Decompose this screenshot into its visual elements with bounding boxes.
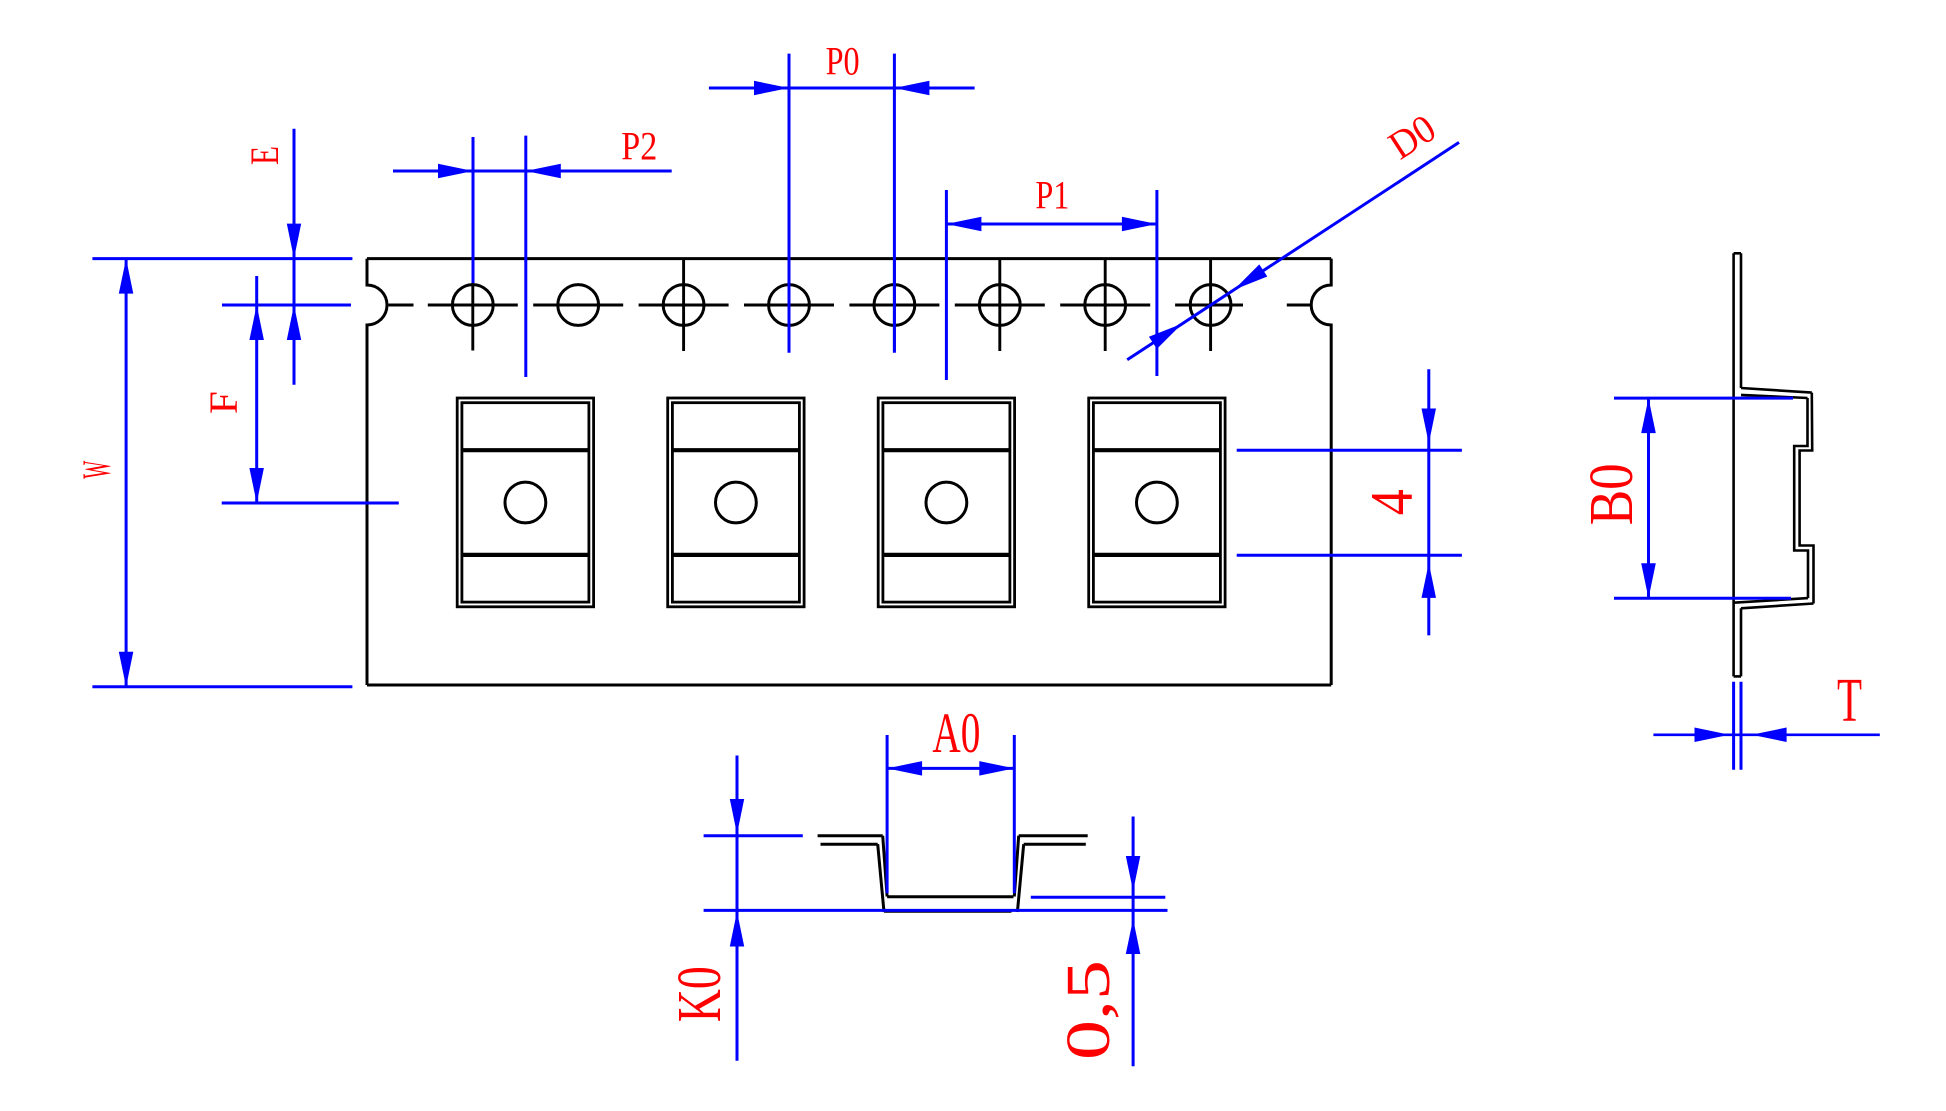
dimension T line with outside arrows [1653, 733, 1879, 736]
sprocket hole 8 [1190, 285, 1231, 326]
dimension 0,5 line with outside arrows [1132, 817, 1135, 1067]
svg-text:W: W [74, 461, 119, 479]
dimension B0 extension line lower [1614, 597, 1791, 600]
dimension B0 line with inside arrows [1647, 398, 1650, 598]
component pocket 3 (inner rim) [883, 403, 1010, 602]
section view pocket: right wall inner line [1014, 836, 1018, 897]
component pocket 3 (outer rim) [878, 398, 1014, 607]
dimension P0 line with outside arrows [709, 87, 975, 90]
svg-text:E: E [242, 146, 287, 165]
pocket 1 lower partition line [462, 553, 589, 557]
dimension P1 extension line at pocket 3 center [945, 190, 948, 380]
dimension 4 reference line upper (pocket partition) [1237, 449, 1462, 452]
dimension P2 extension line at sprocket hole 1 [472, 137, 475, 283]
dimension 4 line with outside arrows [1427, 369, 1430, 635]
pocket 3 upper partition line [883, 448, 1010, 452]
component pocket 1 (outer rim) [457, 398, 593, 607]
sprocket hole 7 [1085, 285, 1126, 326]
dimension W line with arrows [125, 259, 128, 687]
dimension P1 line with inside arrows [946, 223, 1157, 226]
leader D0 lower arrowhead [1149, 324, 1182, 349]
dimension K0 line with outside arrows [736, 756, 739, 1061]
tape side view: bottom end cap [1734, 675, 1741, 678]
pocket 2 upper partition line [672, 448, 799, 452]
svg-text:K0: K0 [666, 966, 734, 1022]
dimension K0 upper reference line [704, 834, 803, 837]
svg-text:F: F [201, 391, 246, 414]
pocket 1 upper partition line [462, 448, 589, 452]
dimension A0 line with inside arrows [887, 767, 1014, 770]
svg-text:4: 4 [1359, 489, 1425, 515]
section view pocket: left wall outer line [878, 844, 884, 912]
dimension B0 extension line upper [1614, 397, 1793, 400]
svg-text:P1: P1 [1035, 172, 1069, 217]
pocket 4 center hole [1137, 482, 1178, 523]
sprocket hole vertical crosshairs [682, 260, 685, 352]
svg-text:B0: B0 [1578, 463, 1646, 525]
pocket 4 lower partition line [1093, 553, 1220, 557]
section view pocket: left wall inner line [883, 836, 887, 897]
svg-text:P2: P2 [621, 124, 657, 169]
tape side view: top end cap [1734, 252, 1741, 255]
tape side view: front surface upper segment [1740, 253, 1743, 388]
pocket 2 center hole [716, 482, 757, 523]
component pocket 4 (outer rim) [1089, 398, 1225, 607]
side view pocket: top flange inner line [1741, 395, 1808, 398]
dimension E line with arrows [293, 129, 296, 385]
section view pocket: outer bottom line [884, 910, 1012, 913]
side view pocket: upper wall outer [1800, 393, 1814, 604]
side view pocket: top flange outer line [1741, 388, 1812, 393]
section view: tape bottom surface right segment [1024, 843, 1086, 846]
section view pocket: inner bottom line [887, 895, 1013, 898]
sprocket hole 1 [452, 285, 493, 326]
sprocket hole 6 [979, 285, 1020, 326]
svg-text:0,5: 0,5 [1055, 960, 1123, 1060]
component pocket 2 (outer rim) [668, 398, 804, 607]
section view pocket: right wall outer line [1017, 844, 1023, 912]
sprocket hole 3 [663, 285, 704, 326]
side view pocket: bottom flange outer line [1741, 604, 1814, 609]
dimension P0 extension line at sprocket hole 5 [893, 54, 896, 353]
sprocket hole 5 [874, 285, 915, 326]
section view: tape top surface right segment [1019, 834, 1088, 837]
leader D0 upper arrowhead [1234, 264, 1267, 289]
pocket 1 center hole [505, 482, 546, 523]
leader line D0 through sprocket hole 8 [1127, 142, 1459, 359]
section view: tape top surface left segment [818, 834, 883, 837]
sprocket hole 4 [769, 285, 810, 326]
svg-text:P0: P0 [826, 39, 860, 84]
svg-text:A0: A0 [932, 702, 980, 765]
dimension A0 extension line left [886, 735, 889, 893]
component pocket 4 (inner rim) [1093, 403, 1220, 602]
carrier tape outline (top view) with edge notches [367, 257, 1331, 260]
sprocket hole centerline (dash pattern) along tape [389, 304, 414, 307]
dimension 0,5 upper reference line (pocket inner bottom) [1031, 896, 1166, 899]
tape side view: back surface line [1732, 253, 1735, 676]
component pocket 1 (inner rim) [462, 403, 589, 602]
section view: tape bottom surface left segment [821, 843, 878, 846]
tape side view: front surface lower segment [1740, 608, 1743, 676]
pocket 3 center hole [926, 482, 967, 523]
dimension P2 line with outside arrows [393, 170, 672, 173]
component pocket 2 (inner rim) [672, 403, 799, 602]
dimension A0 extension line right [1013, 735, 1016, 893]
side view pocket: bottom flange inner line [1734, 598, 1808, 603]
dimension F line with arrows [255, 276, 258, 503]
pocket 2 lower partition line [672, 553, 799, 557]
dimension W extension lines (tape width) [92, 257, 352, 260]
pocket 4 upper partition line [1093, 448, 1220, 452]
dimension P0 extension line at sprocket hole 4 [788, 54, 791, 353]
svg-text:T: T [1837, 667, 1862, 735]
dimension P2 extension line at pocket 1 center [524, 136, 527, 377]
dimension E reference line at sprocket hole centerline [222, 304, 351, 307]
side view pocket: upper wall inner [1794, 398, 1808, 598]
dimension K0 / 0,5 long lower reference line [704, 909, 1168, 912]
dimension P1 extension line at pocket 4 center [1155, 190, 1158, 376]
sprocket hole 2 [558, 285, 599, 326]
dimension T extension lines (tape thickness) [1732, 682, 1735, 770]
dimension F lower reference line at pocket centerline [222, 502, 399, 505]
pocket 3 lower partition line [883, 553, 1010, 557]
dimension 4 reference line lower (pocket partition) [1237, 554, 1462, 557]
